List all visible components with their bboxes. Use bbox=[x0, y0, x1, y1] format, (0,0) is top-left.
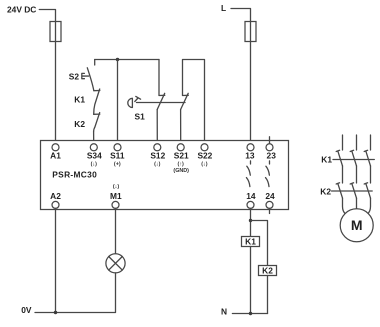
wires between contactors bbox=[343, 166, 371, 183]
svg-text:S1: S1 bbox=[135, 111, 146, 121]
wires to motor bbox=[343, 198, 346, 214]
contactor K2 link bbox=[332, 190, 373, 192]
node junction K1/N bbox=[249, 312, 252, 315]
svg-text:23: 23 bbox=[267, 151, 277, 161]
svg-text:S12: S12 bbox=[150, 151, 165, 161]
wire 24V DC feed to fuse bbox=[39, 10, 55, 22]
contact S1a blade bbox=[157, 93, 165, 109]
wire fuse to A1 bbox=[55, 42, 57, 144]
motor M bbox=[340, 209, 373, 242]
wire phase stubs bbox=[343, 135, 371, 150]
contact S1a fixed tick bbox=[159, 94, 165, 96]
contactor K2 pole 3 bbox=[364, 183, 370, 198]
contactor K1 pole 3 bbox=[364, 150, 370, 166]
wire K2 to N rail bbox=[267, 276, 269, 314]
wire K2 to S34 bbox=[93, 131, 95, 144]
svg-text:K1: K1 bbox=[321, 155, 332, 165]
terminal A2 bbox=[52, 201, 59, 208]
wire S12 branch drop bbox=[158, 60, 160, 96]
svg-text:13: 13 bbox=[245, 151, 255, 161]
svg-text:14: 14 bbox=[246, 191, 256, 201]
wire top bus bbox=[95, 59, 159, 61]
svg-text:S11: S11 bbox=[110, 151, 125, 161]
terminal 14 bbox=[247, 201, 254, 208]
wire stub above S2 bbox=[94, 60, 96, 66]
terminal S12 bbox=[154, 144, 161, 151]
wire 14 down bbox=[250, 208, 252, 236]
svg-text:A1: A1 bbox=[50, 151, 61, 161]
rail 0V bbox=[35, 273, 116, 313]
svg-text:(↓): (↓) bbox=[91, 162, 97, 168]
contactor K2 pole 2 bbox=[350, 183, 356, 198]
wire fuse to terminal 13 bbox=[250, 42, 252, 144]
pushbutton S2 blade bbox=[87, 68, 93, 90]
wire S1a to S12 bbox=[156, 110, 158, 144]
svg-text:K2: K2 bbox=[74, 119, 85, 129]
rail N bbox=[232, 313, 267, 315]
coil K1 bbox=[242, 237, 260, 247]
wire jog to K2 branch bbox=[251, 221, 268, 266]
wire S11 drop bbox=[117, 60, 119, 144]
fuse F2 bbox=[245, 22, 256, 42]
svg-text:S21: S21 bbox=[174, 151, 189, 161]
svg-text:0V: 0V bbox=[21, 305, 32, 315]
svg-text:PSR-MC30: PSR-MC30 bbox=[52, 169, 97, 179]
contact K1 blade bbox=[94, 89, 100, 114]
terminal S34 bbox=[90, 144, 97, 151]
svg-text:(↓): (↓) bbox=[154, 162, 160, 168]
indicator lamp bbox=[106, 254, 125, 273]
wire M1 to lamp bbox=[115, 208, 117, 253]
wire K1 to N rail bbox=[250, 247, 252, 314]
pushbutton S2 actuator bbox=[82, 73, 89, 78]
wire stub above 23 bbox=[269, 137, 271, 144]
svg-text:M1: M1 bbox=[110, 191, 122, 201]
terminal S11 bbox=[114, 144, 121, 151]
contactor K1 pole 1 bbox=[336, 150, 342, 166]
svg-text:(↓): (↓) bbox=[201, 162, 207, 168]
wire L feed to fuse bbox=[231, 9, 251, 22]
relay box PSR-MC30 bbox=[41, 141, 289, 210]
svg-text:(+): (+) bbox=[114, 162, 121, 168]
wire stub below 24 bbox=[269, 208, 271, 213]
e-stop S1 stem mark bbox=[135, 96, 141, 101]
terminal 13 bbox=[247, 144, 254, 151]
svg-text:24V DC: 24V DC bbox=[7, 5, 36, 15]
svg-text:K1: K1 bbox=[245, 237, 256, 247]
svg-text:K1: K1 bbox=[74, 94, 85, 104]
terminal S22 bbox=[201, 144, 208, 151]
contactor K2 pole 1 bbox=[336, 183, 342, 198]
svg-text:S22: S22 bbox=[197, 151, 212, 161]
e-stop S1 mushroom head bbox=[128, 98, 133, 107]
svg-text:N: N bbox=[221, 306, 227, 316]
terminal 24 bbox=[266, 201, 273, 208]
svg-text:(↑): (↑) bbox=[178, 162, 184, 168]
svg-text:(↓): (↓) bbox=[113, 184, 119, 190]
svg-text:(GND): (GND) bbox=[173, 168, 189, 174]
wire S1b to S21 bbox=[180, 110, 182, 144]
terminal 23 bbox=[266, 144, 273, 151]
svg-text:L: L bbox=[221, 3, 226, 13]
contact K2 fixed tick bbox=[94, 113, 100, 115]
svg-text:24: 24 bbox=[265, 191, 275, 201]
wire A2 to 0V rail bbox=[55, 208, 57, 312]
internal contact 23-24 bbox=[269, 161, 271, 164]
coil K2 bbox=[259, 266, 277, 276]
terminal S21 bbox=[177, 144, 184, 151]
svg-text:K2: K2 bbox=[320, 186, 331, 196]
contactor K1 pole 2 bbox=[350, 150, 356, 166]
svg-text:S2: S2 bbox=[69, 71, 80, 81]
terminal A1 bbox=[52, 144, 59, 151]
contact S1b blade bbox=[181, 93, 189, 109]
svg-text:A2: A2 bbox=[50, 191, 61, 201]
internal contact 13-14 bbox=[250, 161, 252, 164]
contact K1 fixed tick bbox=[94, 90, 100, 92]
svg-text:K2: K2 bbox=[262, 266, 273, 276]
contactor K1 link bbox=[333, 159, 374, 161]
node junction A2/0V bbox=[54, 311, 57, 314]
node junction 14/K2 branch bbox=[249, 219, 252, 222]
svg-text:S34: S34 bbox=[87, 151, 102, 161]
svg-text:M: M bbox=[351, 217, 363, 233]
wire bracket S21-S22 bbox=[183, 60, 205, 144]
terminal M1 bbox=[112, 201, 119, 208]
fuse F1 bbox=[50, 22, 61, 42]
contact S1b fixed tick bbox=[183, 94, 189, 96]
node junction bus/S11 bbox=[116, 58, 119, 61]
contact K2 blade bbox=[94, 113, 100, 132]
e-stop S1 mechanical link bbox=[137, 102, 186, 104]
